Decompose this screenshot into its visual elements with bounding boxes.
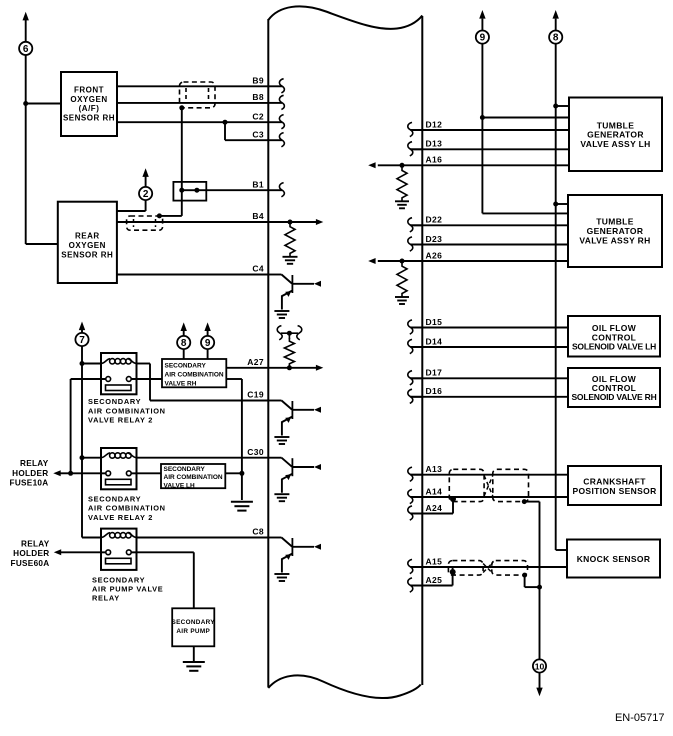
wire D13 xyxy=(410,148,569,150)
wire D23 xyxy=(410,244,568,246)
ECM pin C19 xyxy=(247,390,264,400)
svg-text:9: 9 xyxy=(205,338,211,349)
wire B1 from joint connector to ECM xyxy=(197,189,268,191)
shield (dashed) around A13/A14 pair, section 2 xyxy=(493,469,529,501)
wire C4 xyxy=(117,274,268,276)
wire: bus 8 down to knock sensor xyxy=(555,44,557,550)
wire: bus from circle 6 down to rear oxygen sensor xyxy=(25,55,27,244)
ECM pin C8 xyxy=(252,527,264,537)
ECM pin C2 xyxy=(252,111,284,128)
svg-text:A16: A16 xyxy=(426,155,443,165)
svg-text:B4: B4 xyxy=(252,211,264,221)
wire: relay 3 contact to air pump xyxy=(131,551,194,553)
svg-text:7: 7 xyxy=(79,335,85,346)
wire C8 from relay 3 coil to ECM xyxy=(137,537,269,539)
wire: bus 8 to tumble RH xyxy=(556,203,568,205)
svg-text:AIR COMBINATION: AIR COMBINATION xyxy=(164,474,223,481)
svg-text:HOLDER: HOLDER xyxy=(13,549,49,558)
wire: knock shield drain to ground bus xyxy=(524,575,526,587)
ECM pin A14 xyxy=(408,486,442,503)
node: A25/A15 junction xyxy=(450,569,456,575)
pull-up resistor at pin A27 with internal net hooks and signal arrow xyxy=(268,326,323,371)
label: relay 1 xyxy=(88,397,166,424)
svg-text:SOLENOID VALVE LH: SOLENOID VALVE LH xyxy=(572,341,656,351)
svg-text:EN-05717: EN-05717 xyxy=(615,712,665,724)
ECM right boundary xyxy=(421,16,423,685)
wire: relay 1 coil out, down to C19 xyxy=(137,363,151,365)
node: knock shield drain xyxy=(522,573,527,578)
ECM top break (wavy) xyxy=(268,6,422,28)
svg-text:SECONDARY: SECONDARY xyxy=(88,494,141,503)
front oxygen sensor box xyxy=(61,72,117,136)
wire to relay 2 coil xyxy=(82,457,101,459)
wire A15 xyxy=(410,566,567,568)
svg-text:FUSE10A: FUSE10A xyxy=(10,479,49,488)
svg-text:VALVE ASSY LH: VALVE ASSY LH xyxy=(580,139,650,149)
secondary air pump box xyxy=(172,608,216,646)
svg-text:VALVE RELAY 2: VALVE RELAY 2 xyxy=(88,513,153,522)
svg-text:VALVE RH: VALVE RH xyxy=(165,380,197,387)
ECM pin A25 xyxy=(408,575,442,592)
wire B8 xyxy=(117,102,268,104)
wire C30 from relay 2 coil to ECM xyxy=(137,457,269,459)
pull-down resistor at pin A16 with signal arrow xyxy=(368,162,422,208)
svg-text:D22: D22 xyxy=(426,215,443,225)
transistor driver at pin C30 xyxy=(268,458,321,502)
wire B4 xyxy=(117,221,268,223)
rear oxygen sensor box xyxy=(58,202,117,283)
ECM pin D16 xyxy=(408,386,442,403)
node: junction to front oxygen sensor xyxy=(23,101,28,106)
svg-text:2: 2 xyxy=(143,189,149,200)
relay 2: secondary air combination valve relay 2 xyxy=(101,448,137,489)
ECM pin C4 xyxy=(252,264,264,274)
svg-text:AIR PUMP: AIR PUMP xyxy=(176,628,210,635)
wire A16 xyxy=(422,164,569,166)
node: shield drain of B9/B8 xyxy=(179,105,184,110)
svg-text:AIR COMBINATION: AIR COMBINATION xyxy=(88,504,166,513)
label and arrow: relay holder fuse 60A xyxy=(11,540,106,568)
node: relay 1 coil tap xyxy=(80,361,85,366)
svg-text:9: 9 xyxy=(480,33,486,44)
wire D12 xyxy=(410,129,569,131)
connector arrow 10 (bottom, to another sheet) xyxy=(533,659,546,696)
pull-down resistor at pin A26 with signal arrow xyxy=(368,258,422,304)
svg-text:8: 8 xyxy=(181,338,187,349)
ECM pin A13 xyxy=(408,464,442,481)
ECM pin D13 xyxy=(408,139,442,156)
shield (dashed) around A15, section 1 xyxy=(448,561,483,576)
transistor driver at pin C19 xyxy=(268,401,321,445)
ECM pin A27 xyxy=(247,357,264,367)
svg-text:RELAY: RELAY xyxy=(20,459,49,468)
wire A27 from valve RH to ECM xyxy=(226,367,268,369)
ECM left boundary xyxy=(267,19,269,688)
ground: valve return bus xyxy=(231,501,253,503)
tumble generator valve assy RH box xyxy=(568,195,662,267)
node: bus 8 tap to tumble LH xyxy=(553,104,558,109)
node: crank shield drain xyxy=(522,499,527,504)
oil flow control solenoid valve RH box xyxy=(568,368,660,407)
secondary air combination valve LH box xyxy=(161,464,225,489)
wire C2 xyxy=(117,121,268,123)
svg-text:B8: B8 xyxy=(252,92,264,102)
svg-text:SECONDARY: SECONDARY xyxy=(92,575,145,584)
svg-text:B9: B9 xyxy=(252,76,264,86)
svg-text:C3: C3 xyxy=(252,129,264,139)
node: valve LH return joins ground bus xyxy=(239,471,244,476)
ECM pin C30 xyxy=(247,447,264,457)
connector arrow 8 (top, to another sheet) xyxy=(549,10,562,44)
transistor driver at pin C4 xyxy=(268,275,321,319)
svg-text:10: 10 xyxy=(535,661,545,671)
ECM pin D17 xyxy=(408,368,442,385)
svg-text:D23: D23 xyxy=(426,234,443,244)
svg-text:VALVE ASSY RH: VALVE ASSY RH xyxy=(579,236,650,246)
svg-text:KNOCK SENSOR: KNOCK SENSOR xyxy=(577,554,651,564)
svg-text:RELAY: RELAY xyxy=(21,540,50,549)
svg-text:SECONDARY: SECONDARY xyxy=(165,362,207,369)
svg-text:A26: A26 xyxy=(426,250,443,260)
svg-text:C4: C4 xyxy=(252,264,264,274)
node on C2 branching to C3 xyxy=(223,120,228,125)
wire: fuse junction to relay 2 contact xyxy=(71,472,106,474)
oil flow control solenoid valve LH box xyxy=(568,316,660,357)
ECM bottom break (wavy) xyxy=(268,675,420,698)
wire A13 xyxy=(410,474,568,476)
node: relay 2 coil tap xyxy=(80,455,85,460)
wire: valve RH return to ground bus xyxy=(226,378,242,380)
wire D15 xyxy=(410,327,568,329)
svg-text:C8: C8 xyxy=(252,527,264,537)
ECM pin D14 xyxy=(408,336,442,353)
node: fuse bus junction xyxy=(68,471,73,476)
svg-text:AIR PUMP VALVE: AIR PUMP VALVE xyxy=(92,585,163,594)
svg-text:D14: D14 xyxy=(426,336,443,346)
wire A24 joins A14 xyxy=(410,513,453,515)
transistor driver at pin C8 xyxy=(268,538,321,582)
ground: air pump xyxy=(183,661,205,663)
relay 1: secondary air combination valve relay 2 xyxy=(101,353,137,394)
shield crossover dashes xyxy=(484,476,493,497)
svg-text:A14: A14 xyxy=(426,486,443,496)
wire: bus 8 to tumble LH xyxy=(556,105,569,107)
wire B9 xyxy=(117,85,268,87)
node: B4 shield drain xyxy=(157,213,162,218)
svg-text:AIR COMBINATION: AIR COMBINATION xyxy=(165,371,224,378)
svg-text:A24: A24 xyxy=(426,503,443,513)
joint connector box on B1 xyxy=(173,182,206,201)
svg-text:A13: A13 xyxy=(426,464,443,474)
ECM pin B8 xyxy=(252,92,284,109)
wire: crank shield drain to ground bus xyxy=(524,501,539,503)
relay 3: secondary air pump valve relay xyxy=(101,529,137,570)
ECM pin A15 xyxy=(408,556,442,573)
svg-text:SECONDARY: SECONDARY xyxy=(88,397,141,406)
ECM pin A24 xyxy=(408,503,442,520)
wire A25 joins A15 xyxy=(410,585,452,587)
crankshaft position sensor box xyxy=(568,466,661,505)
shield (dashed) around A13/A14 pair, section 1 xyxy=(449,469,484,501)
label: relay 2 xyxy=(88,494,166,521)
svg-text:AIR COMBINATION: AIR COMBINATION xyxy=(88,406,166,415)
wire: air pump to ground xyxy=(193,646,195,661)
wire: relay 1 contact to fuse bus xyxy=(71,378,106,380)
node: bus 9 tap to tumble LH xyxy=(480,115,485,120)
svg-text:SENSOR RH: SENSOR RH xyxy=(61,250,113,259)
wire: joint connector down to B4 shield drain xyxy=(181,190,183,216)
svg-text:SENSOR RH: SENSOR RH xyxy=(63,114,115,123)
svg-text:A27: A27 xyxy=(247,357,264,367)
ECM pin C3 xyxy=(252,129,284,146)
ECM pin D15 xyxy=(408,317,442,334)
svg-text:C19: C19 xyxy=(247,390,264,400)
svg-text:D12: D12 xyxy=(426,119,443,129)
shield (dashed) around B9/B8 pair xyxy=(180,82,216,108)
wire: rear oxygen sensor to circle 2 xyxy=(117,210,146,212)
wire to relay 1 coil xyxy=(82,363,101,365)
connector arrow 6 (to another sheet) xyxy=(19,12,32,55)
svg-text:POSITION SENSOR: POSITION SENSOR xyxy=(572,486,656,496)
ECM pin B4 xyxy=(252,211,264,221)
node: A24/A14 junction xyxy=(450,496,456,502)
svg-text:RELAY: RELAY xyxy=(92,594,120,603)
ECM pin D22 xyxy=(408,215,442,232)
connector arrow 8 above valve RH xyxy=(177,322,190,349)
svg-text:C2: C2 xyxy=(252,111,264,121)
svg-text:REAR: REAR xyxy=(75,232,100,241)
tumble generator valve assy LH box xyxy=(569,98,662,172)
svg-text:D15: D15 xyxy=(426,317,443,327)
connector arrow 7 (to another sheet) xyxy=(75,322,88,347)
svg-text:SOLENOID VALVE RH: SOLENOID VALVE RH xyxy=(571,392,656,402)
ECM pin A16 xyxy=(426,155,443,165)
svg-text:OXYGEN: OXYGEN xyxy=(69,241,106,250)
wire: coil bus down to relay 3 xyxy=(81,458,83,538)
wire: shield drain down to joint connector xyxy=(181,108,183,190)
svg-text:VALVE RELAY 2: VALVE RELAY 2 xyxy=(88,416,153,425)
svg-text:D16: D16 xyxy=(426,386,443,396)
svg-text:OXYGEN: OXYGEN xyxy=(70,95,107,104)
ECM pin A26 xyxy=(426,250,443,260)
label and arrow: relay holder fuse 10A xyxy=(10,459,71,487)
knock sensor box xyxy=(567,540,660,578)
shield (dashed) around A15, section 2 xyxy=(492,561,528,576)
svg-text:B1: B1 xyxy=(252,179,264,189)
ECM pin B1 xyxy=(252,179,284,196)
shield (dashed) around B4 xyxy=(127,216,163,230)
svg-text:A25: A25 xyxy=(426,575,443,585)
wires from circles 8/9 into valve RH box xyxy=(183,349,185,359)
svg-text:(A/F): (A/F) xyxy=(79,104,100,113)
label: relay 3 xyxy=(92,575,163,602)
connector arrow 9 (top, to another sheet) xyxy=(476,10,489,44)
node: bus 8 tap to tumble RH xyxy=(553,202,558,207)
svg-text:C30: C30 xyxy=(247,447,264,457)
svg-text:8: 8 xyxy=(553,33,559,44)
pull-down resistor at pin B4 with signal arrow xyxy=(268,219,323,264)
wire: to front oxygen sensor xyxy=(26,103,61,105)
connector arrow 2 (to another sheet) xyxy=(139,168,152,200)
ECM pin D12 xyxy=(408,119,442,136)
wire D17 xyxy=(410,377,568,379)
wire A14 xyxy=(410,496,568,498)
svg-text:FRONT: FRONT xyxy=(74,85,104,94)
wire: relay coil feed bus from circle 7 xyxy=(81,346,83,458)
svg-text:6: 6 xyxy=(23,44,29,55)
svg-text:D13: D13 xyxy=(426,139,443,149)
wire: valve LH return to ground bus xyxy=(225,472,242,474)
ECM pin D23 xyxy=(408,234,442,251)
svg-text:A15: A15 xyxy=(426,556,443,566)
wire: relay 2 contact to valve LH xyxy=(131,472,161,474)
wire: bus 9 to tumble LH xyxy=(482,117,569,119)
wire: bus 9 down to tumble valves xyxy=(481,44,483,214)
wire C3 branch xyxy=(224,122,226,140)
wire D16 xyxy=(410,396,568,398)
ECM pin B9 xyxy=(252,76,284,93)
svg-text:HOLDER: HOLDER xyxy=(12,469,48,478)
svg-text:VALVE LH: VALVE LH xyxy=(164,482,195,489)
svg-text:SECONDARY: SECONDARY xyxy=(172,619,216,626)
svg-text:D17: D17 xyxy=(426,368,443,378)
svg-text:FUSE60A: FUSE60A xyxy=(11,559,50,568)
wire D14 xyxy=(410,346,568,348)
node: ground bus junction xyxy=(537,585,542,590)
wire D22 xyxy=(410,224,568,226)
shield crossover dashes (A15) xyxy=(483,564,492,573)
secondary air combination valve RH box xyxy=(162,359,226,387)
wire A26 xyxy=(422,260,568,262)
connector arrow 9 above valve RH xyxy=(201,322,214,349)
wire: relay 1 contact to valve RH xyxy=(131,378,162,380)
svg-text:SECONDARY: SECONDARY xyxy=(164,466,206,473)
